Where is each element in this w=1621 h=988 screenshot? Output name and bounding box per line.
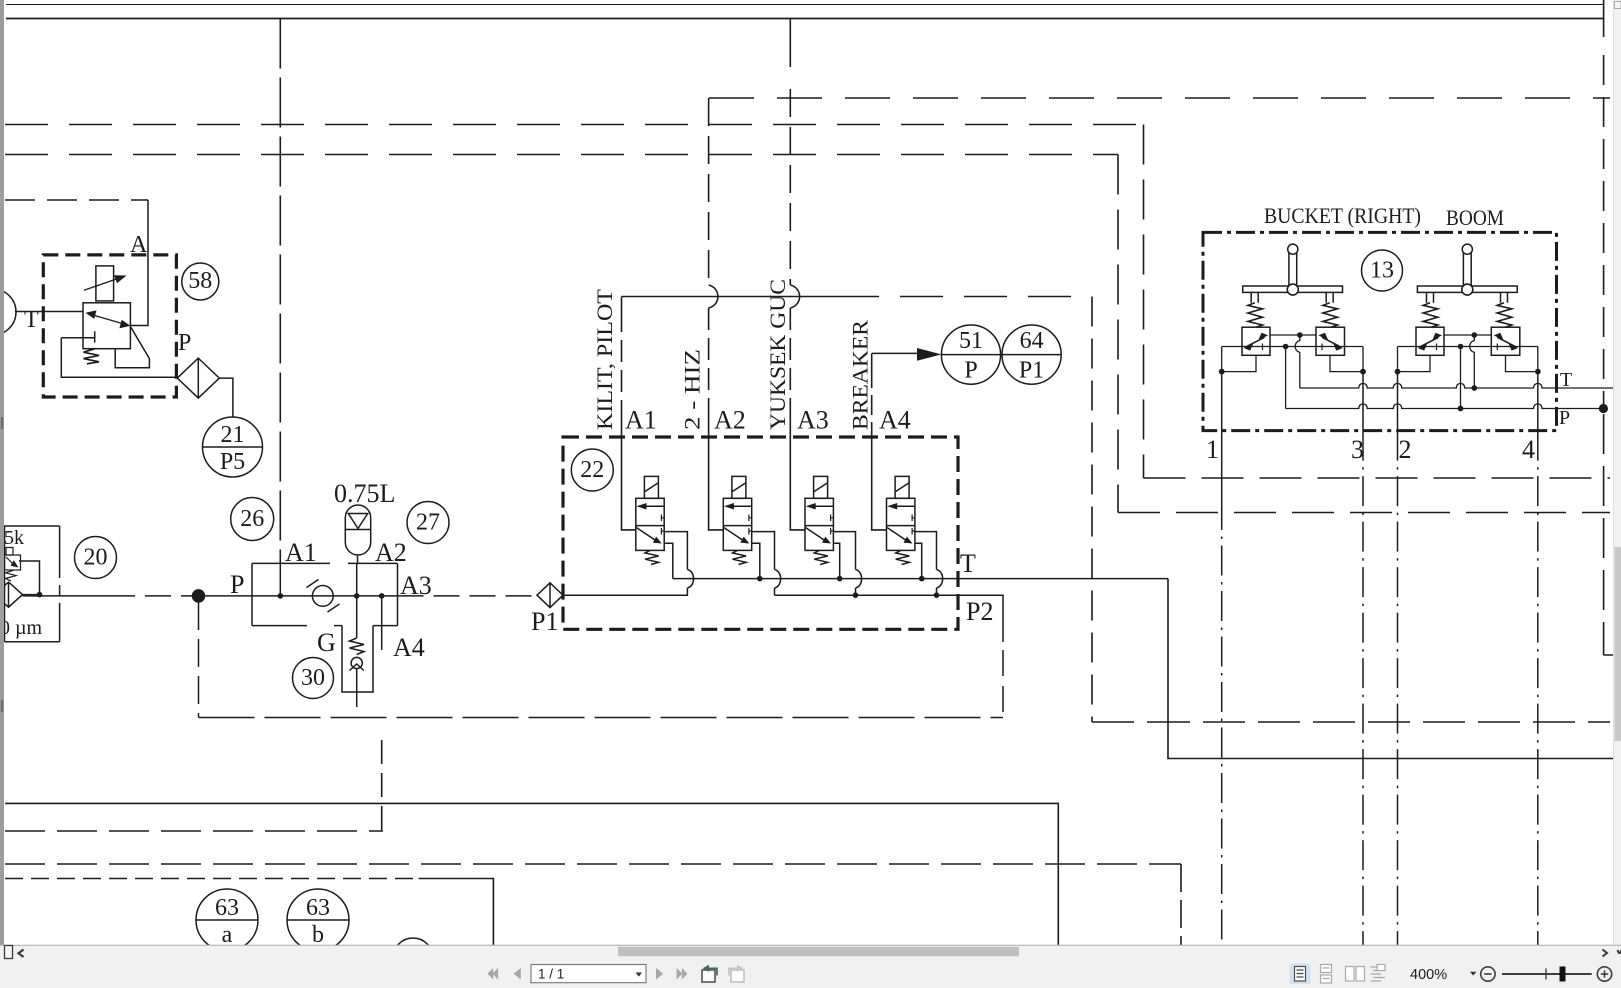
svg-text:0.75L: 0.75L — [334, 479, 395, 508]
svg-text:26: 26 — [240, 506, 264, 532]
wire top border line 1 — [6, 4, 1604, 6]
solenoid valve BREAKER spring — [896, 550, 910, 564]
wire vertical below node — [198, 602, 200, 718]
wire dashed net y722 — [1092, 721, 1610, 723]
valve 58 spring — [84, 349, 100, 364]
sidebar collapse chevron — [19, 950, 24, 958]
wire valve4 ports — [915, 532, 937, 596]
svg-text:A4: A4 — [879, 406, 911, 435]
node pilot T rail junction — [1471, 385, 1477, 391]
corner resize mark — [1618, 950, 1621, 953]
svg-text:A2: A2 — [714, 406, 746, 435]
wire dashed net y831 — [5, 830, 383, 832]
node filter 20 junction — [37, 592, 43, 598]
wire lead 3 — [1362, 372, 1364, 431]
svg-text:b: b — [312, 922, 324, 948]
horizontal scrollbar thumb — [618, 947, 1019, 957]
indicator circle 63b — [287, 889, 349, 951]
wire node to valve block 26 — [199, 595, 253, 597]
svg-text:5k: 5k — [4, 527, 24, 549]
svg-text:A1: A1 — [285, 538, 317, 567]
indicator circle 30 — [293, 658, 334, 699]
wire dashed net y717 — [199, 717, 1004, 719]
wire dashed net y98 — [709, 97, 1610, 99]
valve 58 adjustment box — [96, 266, 114, 301]
pilot valve 1 body — [1242, 327, 1270, 355]
valve 58 pilot drain line — [61, 338, 177, 378]
svg-text:A1: A1 — [625, 406, 657, 435]
node bucket junctions — [1219, 369, 1366, 375]
svg-text:P1: P1 — [531, 607, 558, 636]
valve bank 22 enclosure dashed box — [563, 437, 958, 629]
indicator circle 13 — [1362, 250, 1403, 291]
filter P5 diamond — [177, 358, 219, 398]
indicator circle 26 — [231, 498, 274, 541]
wire bucket pair lower link — [1222, 344, 1363, 409]
wire port A line — [131, 200, 148, 326]
sidebar toggle handle — [5, 946, 13, 959]
cover facing view icon — [1371, 965, 1386, 982]
svg-text:P1: P1 — [1019, 358, 1044, 384]
continuous view icon — [1321, 965, 1332, 984]
svg-text:3: 3 — [1351, 435, 1364, 464]
wire vertical A3 column with hop over rail — [789, 19, 791, 68]
wire vertical A2 column with hop over rail — [708, 98, 710, 285]
svg-text:BUCKET (RIGHT): BUCKET (RIGHT) — [1264, 203, 1421, 228]
zoom in button — [1597, 967, 1611, 981]
svg-text:T: T — [1560, 369, 1572, 391]
accumulator 27 capsule — [345, 505, 370, 555]
wire pilot P rail — [1286, 404, 1604, 409]
svg-text:1: 1 — [1206, 435, 1219, 464]
svg-text:T: T — [960, 549, 976, 578]
wire boom pair upper link — [1444, 332, 1491, 388]
wire valve2 ports — [752, 532, 775, 596]
wire dashed net y864 — [5, 863, 1181, 865]
svg-text:2 - HIZ: 2 - HIZ — [680, 349, 705, 430]
wire dashed net y512 — [1118, 512, 1610, 514]
wire P line to filter P1 dashed — [398, 595, 538, 597]
rotate clockwise icon disabled — [729, 965, 744, 982]
indicator circle 21 P5 — [203, 417, 263, 477]
solenoid valve KILIT PILOT spring — [645, 550, 659, 564]
indicator circle 27 — [407, 502, 449, 544]
solenoid valve BREAKER coil — [895, 476, 909, 498]
wire boom valve pins — [1398, 355, 1538, 371]
wire A2 accumulator stem — [356, 555, 359, 596]
svg-text:KILIT, PILOT: KILIT, PILOT — [592, 288, 617, 430]
accumulator gas triangle — [345, 514, 370, 530]
filter 20 diamond — [0, 582, 23, 607]
wire dashed net y124 — [5, 124, 1144, 126]
wire dashed net y154 — [5, 154, 1118, 156]
pilot valve 4 body — [1491, 327, 1520, 355]
wire A4 stub — [381, 596, 383, 650]
wire A1 into block — [279, 563, 281, 596]
pilot valve 2 body — [1316, 327, 1345, 355]
node pilot P rail junctions — [1458, 404, 1608, 413]
valve 58 feedback loop — [115, 327, 149, 368]
valve block 26 body — [252, 563, 398, 625]
joystick BOOM pushrods — [1427, 292, 1508, 302]
svg-text:20: 20 — [84, 545, 108, 571]
svg-text:A4: A4 — [393, 633, 425, 662]
svg-text:51: 51 — [959, 328, 983, 354]
wire P supply dashed — [23, 595, 110, 597]
svg-text:T: T — [24, 307, 39, 333]
joystick BUCKET plate — [1243, 286, 1343, 292]
pilot control block 13 enclosure dash-dot box — [1203, 232, 1557, 430]
node A3 junction — [379, 593, 385, 599]
node T rail junctions — [757, 576, 925, 582]
indicator circle 64 P1 — [941, 325, 1061, 384]
svg-text:P: P — [964, 358, 977, 384]
svg-text:4: 4 — [1522, 435, 1535, 464]
check ball in block 30 — [350, 657, 364, 670]
pressure switch 5k symbol — [5, 548, 21, 582]
wire T rail from bank to right edge — [1168, 579, 1614, 759]
filter 20 enclosure box — [5, 526, 60, 642]
node main P junction — [192, 589, 206, 603]
zoom out button — [1481, 967, 1495, 981]
wire lead 1 — [1221, 372, 1223, 500]
joystick BUCKET springs — [1248, 303, 1263, 327]
wire vertical net x1092 — [1091, 297, 1093, 723]
svg-text:A: A — [130, 232, 148, 258]
valve 58 pressure reducing valve body — [83, 303, 130, 349]
wire bottom solid net y803 — [5, 803, 1058, 945]
pilot valve 3 body — [1416, 327, 1444, 355]
svg-text:0 µm: 0 µm — [0, 617, 43, 639]
wire vertical stub x383 — [381, 740, 383, 831]
wire T line into valve 58 — [15, 311, 83, 313]
nav next page button — [656, 968, 663, 979]
svg-text:1 / 1: 1 / 1 — [538, 967, 564, 982]
indicator circle 58 — [182, 263, 219, 300]
svg-text:P2: P2 — [966, 597, 993, 626]
wire vertical A1 column dashed — [279, 19, 281, 564]
solenoid valve 2-HIZ coil — [732, 476, 746, 498]
valve 58 enclosure dashed box — [43, 255, 176, 397]
valve 58 adjustment arrow — [84, 275, 127, 290]
valve 58 pilot tick — [61, 331, 94, 342]
wire lead 4 — [1537, 372, 1539, 431]
node A2 junction — [354, 593, 360, 599]
solenoid valve YUKSEK GUC spring — [814, 550, 828, 564]
viewer right scrollbar — [1614, 0, 1621, 988]
svg-text:22: 22 — [580, 457, 604, 483]
svg-text:58: 58 — [188, 268, 212, 294]
indicator circle 63a — [196, 889, 258, 951]
svg-text:27: 27 — [416, 510, 440, 536]
spring in block 30 — [350, 638, 365, 655]
nav first page button — [488, 968, 499, 979]
wire filter 20 output — [19, 561, 40, 595]
indicator circle 20 — [75, 537, 117, 579]
joystick BUCKET lever — [1288, 244, 1298, 285]
solenoid valve BREAKER body — [887, 498, 915, 550]
wire box 63 top edge — [5, 878, 419, 880]
check valve block 30 — [342, 626, 373, 692]
indicator circle 51 P — [941, 325, 1000, 384]
rotate counterclockwise icon — [702, 965, 717, 982]
svg-text:P: P — [178, 330, 191, 356]
hidden panel chevron right — [1603, 950, 1608, 957]
svg-text:64: 64 — [1020, 328, 1044, 354]
wire below block 30 — [356, 669, 358, 707]
wire lead 2 — [1397, 372, 1399, 431]
viewer bottom toolbar — [0, 945, 1621, 988]
solenoid valve YUKSEK GUC coil — [814, 476, 828, 498]
wire dashed net y200 to valve 58 port A — [5, 199, 148, 201]
wire breaker signal arrow — [872, 348, 942, 361]
wire bucket pair upper link — [1270, 332, 1316, 388]
joystick BOOM lever — [1462, 244, 1472, 285]
svg-text:400%: 400% — [1410, 967, 1447, 983]
svg-text:63: 63 — [215, 895, 239, 921]
wire pilot rail y296 — [622, 296, 837, 298]
pump/tank symbol partial circle at left edge — [0, 289, 16, 335]
wire bucket valve pins — [1222, 355, 1363, 371]
joystick BUCKET pushrods — [1251, 292, 1333, 302]
wire P5 connection — [219, 378, 233, 417]
svg-text:A3: A3 — [797, 406, 829, 435]
zoom slider — [1502, 973, 1592, 975]
joystick BOOM pivot — [1462, 284, 1473, 295]
svg-text:30: 30 — [301, 665, 325, 691]
svg-text:P5: P5 — [220, 449, 245, 475]
valve 58 flow arrow double headed — [86, 310, 131, 328]
svg-text:21: 21 — [221, 422, 245, 448]
solenoid valve KILIT PILOT body — [636, 498, 664, 550]
joystick BOOM springs — [1423, 303, 1438, 327]
svg-text:BOOM: BOOM — [1446, 205, 1504, 230]
wire pilot T rail — [1300, 383, 1614, 388]
solenoid valve 2-HIZ spring — [733, 550, 747, 564]
joystick BOOM plate — [1417, 286, 1517, 292]
node boom junctions — [1395, 369, 1541, 375]
nav previous page button — [514, 968, 521, 979]
indicator circle 22 — [571, 449, 613, 491]
svg-text:P: P — [1559, 407, 1570, 429]
wire vertical net x1143 — [1143, 125, 1145, 479]
svg-text:13: 13 — [1370, 258, 1394, 284]
node P2 rail junctions — [853, 592, 940, 598]
wire vertical net x1118 — [1117, 155, 1119, 513]
solenoid valve YUKSEK GUC body — [805, 498, 833, 550]
wire G line through block — [356, 596, 358, 638]
wire valve3 ports — [833, 532, 855, 596]
wire vertical net x1181 — [1180, 864, 1182, 945]
node A1 junction — [278, 593, 284, 599]
svg-text:A3: A3 — [400, 571, 432, 600]
joystick BUCKET pivot — [1287, 284, 1298, 295]
svg-text:BREAKER: BREAKER — [848, 320, 873, 430]
svg-text:P: P — [230, 570, 244, 599]
svg-text:G: G — [317, 628, 336, 657]
svg-text:63: 63 — [306, 895, 330, 921]
wire top border line 2 — [6, 18, 1604, 20]
solenoid valve KILIT PILOT coil — [644, 476, 658, 498]
svg-text:2: 2 — [1399, 435, 1412, 464]
wire vertical A1 column — [621, 297, 623, 311]
svg-text:a: a — [222, 922, 233, 948]
page number input box — [531, 965, 646, 983]
wire vertical A4 column — [871, 353, 873, 368]
wire vertical net right edge x1603 — [1603, 0, 1605, 37]
filter P1 diamond — [537, 583, 563, 608]
check valve in block 26 — [307, 580, 340, 613]
wire P line through block 26 — [252, 595, 398, 597]
wire T rail of bank — [673, 578, 1168, 580]
svg-text:YUKSEK GUC: YUKSEK GUC — [765, 279, 790, 430]
wire valve1 ports — [563, 532, 687, 596]
viewer left panel edge — [0, 0, 4, 958]
wire P2 rail of bank — [775, 595, 1004, 642]
indicator circle partial bottom — [393, 938, 433, 978]
facing view icon — [1346, 967, 1365, 982]
wire dashed net y478 — [1144, 477, 1611, 479]
single page view icon selected — [1290, 964, 1311, 985]
nav last page button — [677, 968, 688, 979]
svg-text:A2: A2 — [375, 538, 407, 567]
wire boom pair lower link — [1398, 344, 1538, 409]
solenoid valve 2-HIZ body — [723, 498, 751, 550]
